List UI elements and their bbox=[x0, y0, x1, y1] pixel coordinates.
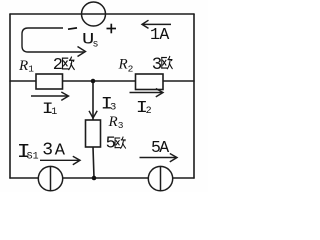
svg-text:1: 1 bbox=[51, 107, 57, 118]
svg-text:1A: 1A bbox=[150, 25, 169, 44]
node A junction dot bbox=[91, 79, 96, 84]
hanzi ou (5) bbox=[115, 137, 125, 148]
arrow I1 bbox=[31, 92, 69, 100]
resistor R3 bbox=[86, 120, 101, 147]
svg-text:R: R bbox=[118, 56, 128, 72]
svg-text:2: 2 bbox=[146, 106, 152, 117]
svg-text:2: 2 bbox=[53, 56, 63, 75]
wire left bbox=[9, 14, 11, 178]
resistor R2 bbox=[136, 74, 164, 90]
arrow 1A (pointing left) bbox=[142, 20, 171, 28]
wire right bbox=[193, 14, 195, 178]
arrow 5A bbox=[140, 154, 178, 162]
current source 2 circle bbox=[148, 166, 172, 190]
svg-text:3: 3 bbox=[42, 141, 53, 161]
svg-text:3: 3 bbox=[110, 102, 116, 114]
current source IS1 circle bbox=[38, 166, 62, 190]
svg-text:5: 5 bbox=[106, 135, 116, 154]
svg-text:R: R bbox=[18, 58, 28, 74]
wire center vertical upper bbox=[92, 81, 94, 120]
svg-text:A: A bbox=[55, 142, 66, 161]
arrow I2 bbox=[130, 89, 164, 97]
svg-text:3: 3 bbox=[118, 120, 124, 131]
hanzi ou (3) bbox=[162, 56, 172, 68]
node B junction dot (bottom) bbox=[92, 176, 97, 181]
wire center vertical lower bbox=[93, 147, 94, 178]
minus sign of U_S bbox=[68, 28, 77, 29]
svg-text:S1: S1 bbox=[27, 152, 39, 163]
arrow I3 (down arrowhead on center wire) bbox=[89, 111, 97, 118]
svg-text:2: 2 bbox=[128, 63, 134, 74]
arrow IS1 3A bbox=[40, 156, 80, 164]
hanzi ou (2) bbox=[63, 57, 75, 69]
plus sign of U_S bbox=[107, 24, 117, 34]
voltage source U_S circle bbox=[82, 2, 106, 26]
svg-text:s: s bbox=[93, 40, 99, 51]
svg-text:3: 3 bbox=[152, 55, 163, 75]
wire middle-right bbox=[163, 80, 194, 82]
svg-text:R: R bbox=[108, 114, 118, 130]
svg-text:1: 1 bbox=[28, 64, 34, 75]
resistor R1 bbox=[36, 74, 63, 89]
wire bottom bbox=[10, 177, 194, 179]
mesh loop arrow bbox=[22, 28, 86, 57]
svg-text:A: A bbox=[159, 138, 169, 157]
wire middle-left bbox=[10, 80, 36, 82]
wire top bbox=[10, 13, 194, 15]
wire middle-center bbox=[63, 80, 136, 82]
